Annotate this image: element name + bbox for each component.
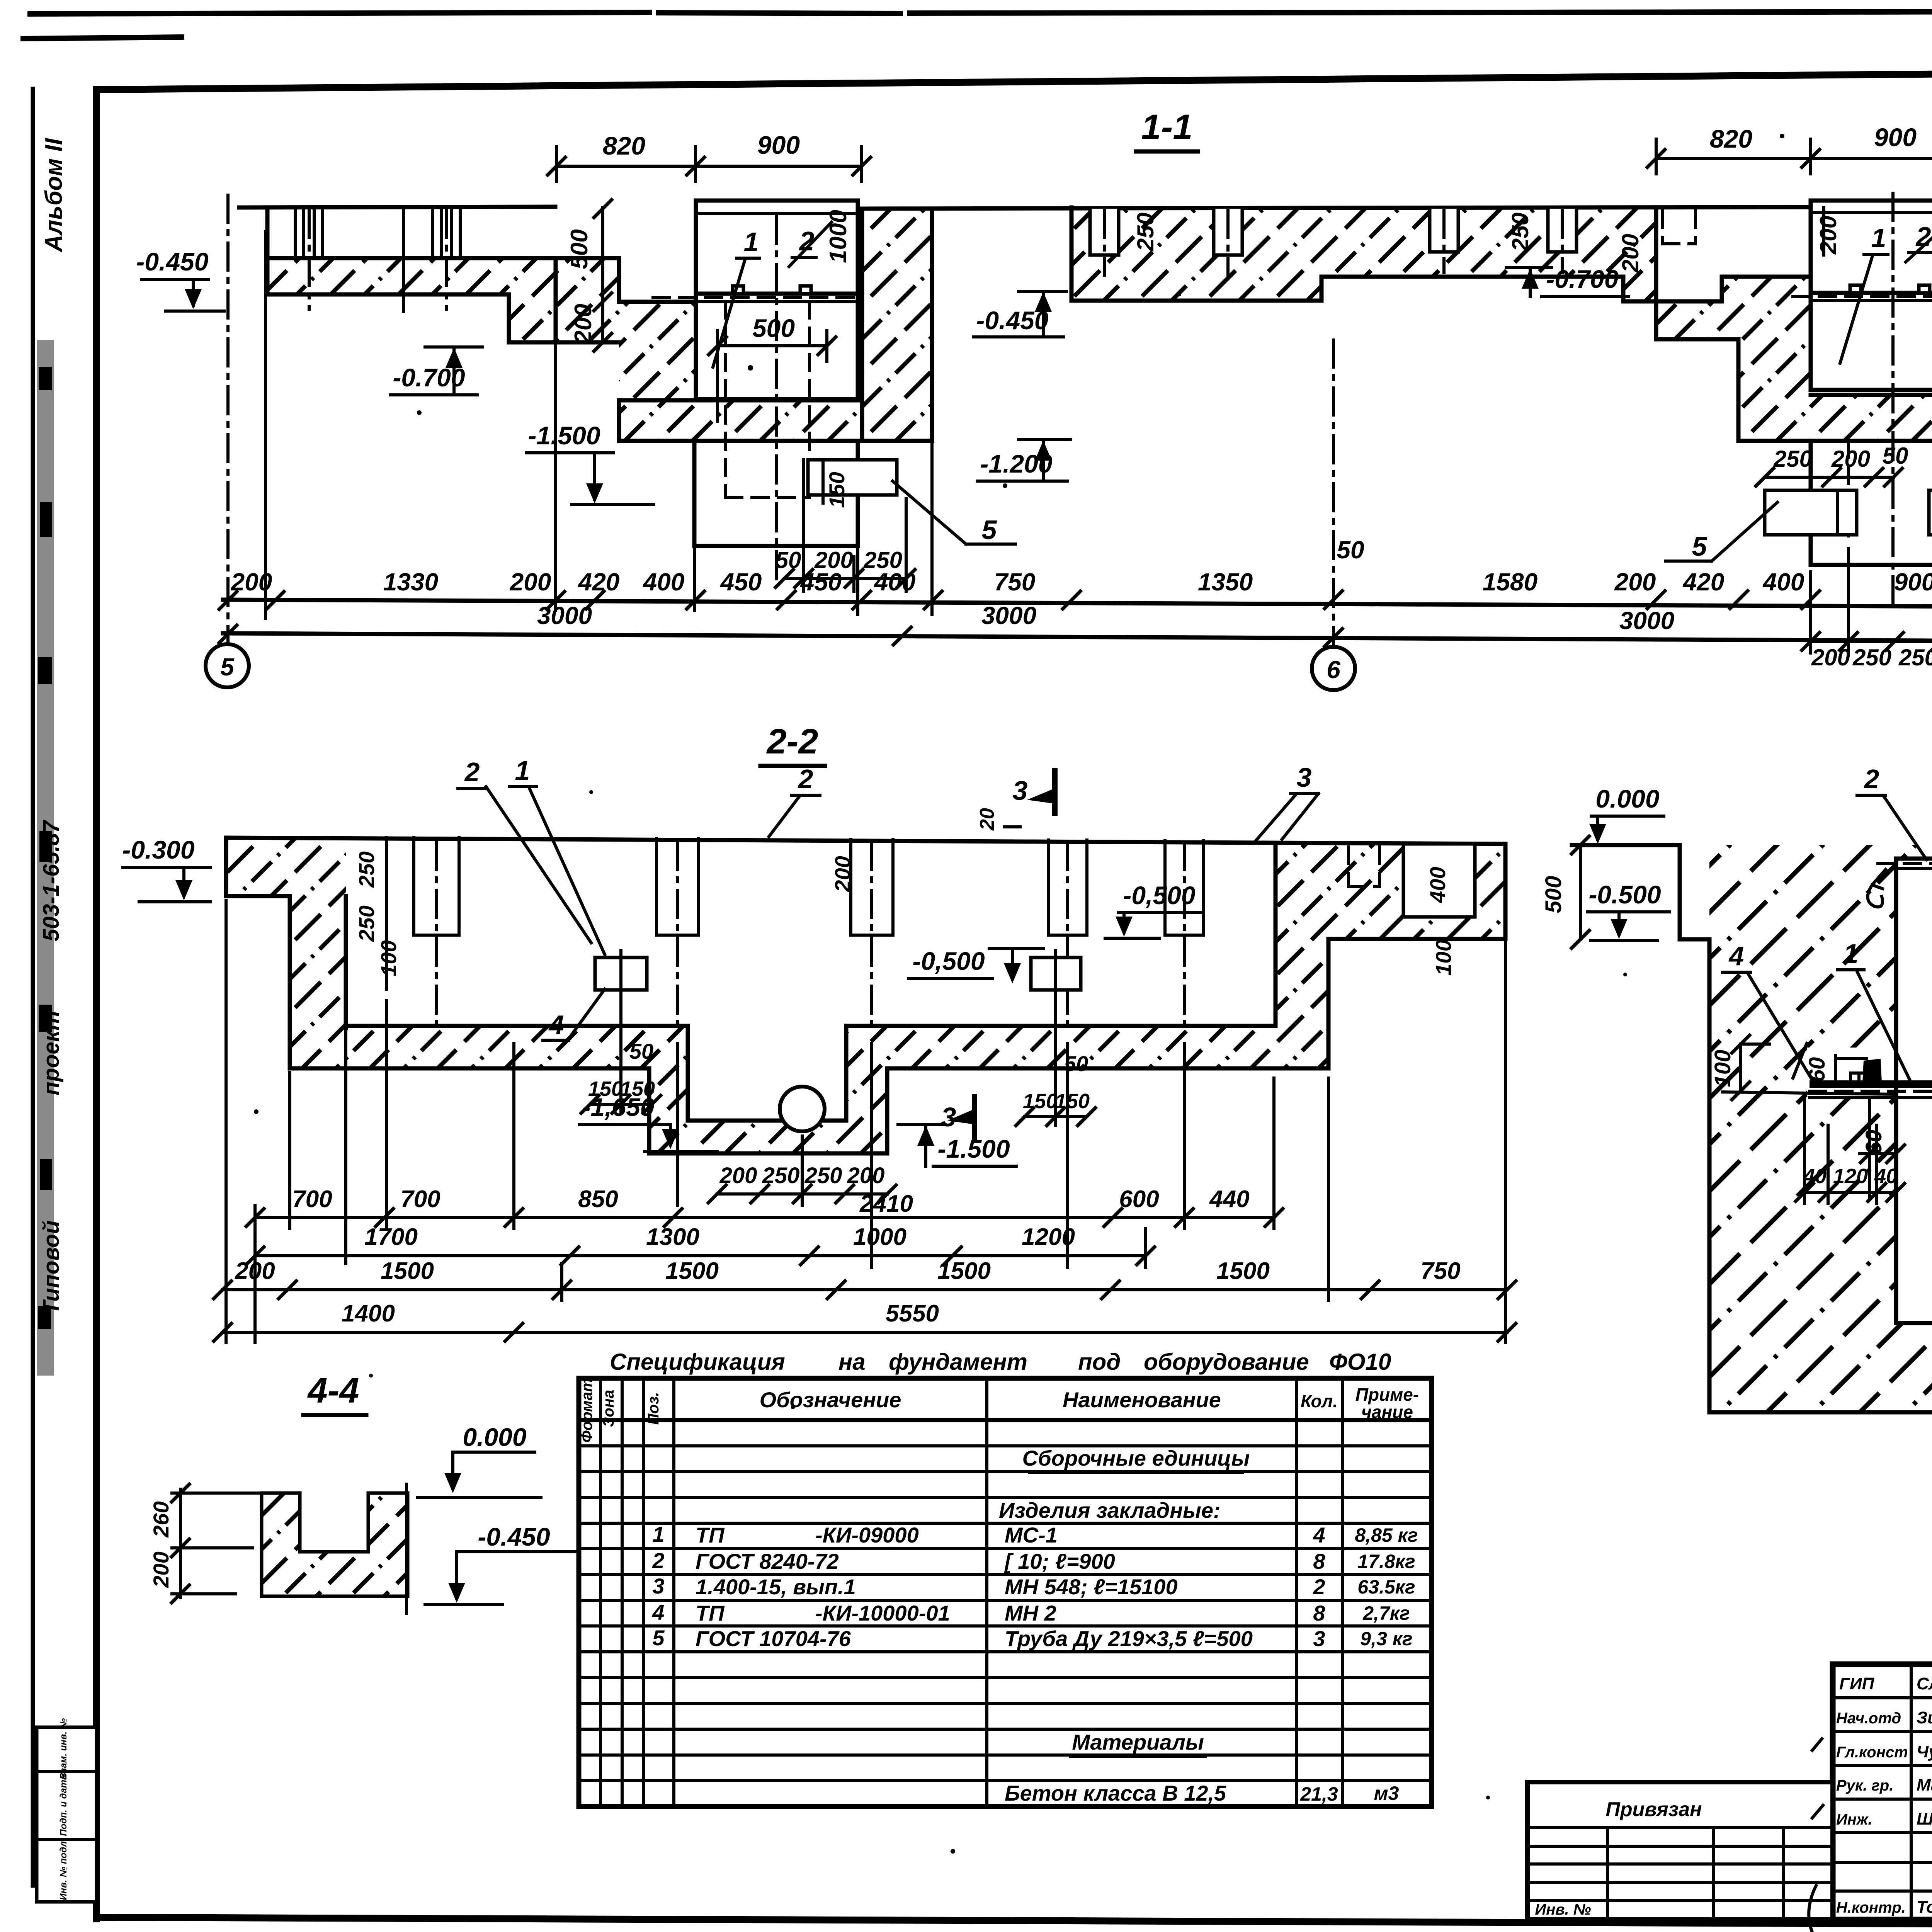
- left margin bottom stamp cells: [37, 1718, 97, 1902]
- svg-text:450: 450: [720, 568, 762, 596]
- level mark -0.450 left: [136, 247, 224, 311]
- svg-text:Спецификация: Спецификация: [610, 1349, 785, 1375]
- 4-4 right extension line: [405, 1484, 408, 1614]
- 4-4 left dim line 260/200: [149, 1483, 262, 1604]
- svg-text:200: 200: [719, 1163, 757, 1188]
- right unit top dim line 820/900: [1646, 123, 1932, 174]
- svg-text:3: 3: [1313, 1626, 1325, 1651]
- 3-3 dim 500 left: [1541, 835, 1590, 949]
- level mark -1.200 left unit: [978, 439, 1070, 481]
- svg-text:Нач.отд: Нач.отд: [1836, 1710, 1901, 1727]
- dim chain row 2: [218, 602, 1932, 652]
- 2-2 left rim hatch: [226, 838, 346, 896]
- svg-text:Сборочные единицы: Сборочные единицы: [1022, 1446, 1250, 1470]
- svg-text:40: 40: [1803, 1165, 1827, 1188]
- left margin smudge band: [37, 340, 54, 1376]
- svg-text:чание: чание: [1361, 1402, 1413, 1422]
- svg-text:3: 3: [1013, 776, 1028, 806]
- svg-text:оборудование: оборудование: [1144, 1349, 1309, 1375]
- svg-text:5: 5: [220, 653, 235, 681]
- 2-2 dim row D: [213, 1300, 1517, 1342]
- axis 6 line: [1332, 340, 1335, 646]
- svg-text:1300: 1300: [646, 1224, 699, 1250]
- 4-4 channel section: [262, 1493, 408, 1596]
- svg-text:20: 20: [976, 808, 998, 831]
- svg-text:1500: 1500: [937, 1258, 991, 1284]
- 3-3 clamp hook left: [1868, 869, 1886, 907]
- title block outer: [1833, 1664, 1932, 1920]
- svg-text:8,85 кг: 8,85 кг: [1355, 1524, 1418, 1546]
- svg-text:200: 200: [1617, 234, 1643, 273]
- signature row Нач.отд: [1836, 1708, 1932, 1727]
- svg-text:150: 150: [825, 472, 849, 508]
- svg-text:21,3: 21,3: [1300, 1783, 1338, 1805]
- svg-text:-КИ-10000-01: -КИ-10000-01: [815, 1601, 950, 1625]
- 2-2 pocket 1: [414, 838, 459, 1028]
- svg-text:ГОСТ 8240-72: ГОСТ 8240-72: [696, 1549, 839, 1573]
- 2-2 right rim hatch: [1328, 844, 1505, 976]
- 3-3 dim 60 upper: [1804, 1055, 1866, 1083]
- 2-2 pocket 5: [1165, 841, 1204, 1028]
- svg-text:900: 900: [757, 131, 800, 159]
- svg-text:150: 150: [1055, 1090, 1090, 1113]
- top-left short border line: [23, 37, 182, 39]
- svg-text:-0.450: -0.450: [478, 1522, 550, 1551]
- svg-text:Н.контр.: Н.контр.: [1836, 1899, 1906, 1916]
- svg-text:4: 4: [1728, 941, 1744, 971]
- svg-text:-1,650: -1,650: [582, 1093, 654, 1121]
- svg-text:4: 4: [548, 1010, 564, 1040]
- svg-text:ФО10: ФО10: [1329, 1349, 1391, 1375]
- svg-text:Рук. гр.: Рук. гр.: [1836, 1777, 1893, 1794]
- 4-4 level -0.450: [425, 1522, 576, 1605]
- left slab hatch: [267, 207, 556, 294]
- leader label 5 left unit: [893, 481, 1015, 545]
- svg-text:-1.500: -1.500: [528, 421, 600, 450]
- svg-text:-0.300: -0.300: [122, 835, 194, 864]
- svg-text:200: 200: [149, 1551, 173, 1588]
- svg-text:Взам. инв. №: Взам. инв. №: [58, 1718, 69, 1779]
- svg-text:1: 1: [1871, 223, 1886, 253]
- title block left box Привязан: [1527, 1782, 1833, 1920]
- svg-text:3000: 3000: [1619, 607, 1674, 634]
- specification header texts: [578, 1378, 1419, 1443]
- 2-2 embed box right: [1031, 951, 1081, 997]
- svg-text:8: 8: [1313, 1549, 1325, 1573]
- 2-2 leader 2 mid: [769, 764, 820, 837]
- specification row: сборочные единицы: [1022, 1446, 1250, 1472]
- left unit bottom sub dims 50/200/250: [774, 498, 916, 591]
- svg-text:250: 250: [1852, 645, 1891, 670]
- 3-3 level -0.500: [1587, 880, 1669, 940]
- svg-text:820: 820: [603, 131, 645, 160]
- section 4-4 title: [303, 1371, 366, 1415]
- svg-text:1: 1: [515, 755, 530, 786]
- svg-text:500: 500: [1541, 876, 1566, 913]
- level mark -0.450 left unit: [974, 292, 1066, 337]
- svg-text:250: 250: [1773, 446, 1812, 472]
- svg-text:0.000: 0.000: [1595, 784, 1659, 813]
- axis 5 line: [226, 195, 230, 643]
- middle slab pocket 4: [1548, 209, 1577, 272]
- handwritten flourish left of signature table: [1809, 1739, 1823, 1932]
- svg-text:50: 50: [776, 547, 801, 573]
- svg-text:503-1-65.87: 503-1-65.87: [39, 820, 64, 942]
- svg-text:250: 250: [1133, 213, 1158, 252]
- signature row Н.контр: [1836, 1898, 1932, 1917]
- svg-text:Инв. № подл.: Инв. № подл.: [58, 1838, 69, 1900]
- svg-text:200: 200: [231, 568, 272, 596]
- svg-text:1: 1: [1844, 939, 1859, 969]
- svg-text:500: 500: [752, 314, 795, 342]
- left pit pedestal: [694, 216, 858, 580]
- 2-2 dim row A: [245, 1186, 1284, 1228]
- svg-text:1700: 1700: [364, 1224, 418, 1250]
- svg-text:-0.450: -0.450: [136, 247, 208, 276]
- svg-text:МС-1: МС-1: [1005, 1523, 1058, 1547]
- ground line mid span: [862, 207, 1811, 209]
- svg-text:-0,500: -0,500: [912, 947, 985, 975]
- svg-text:250: 250: [804, 1163, 842, 1188]
- 2-2 right wall hatch: [1276, 844, 1328, 1068]
- 2-2 embed box left item 4: [595, 951, 647, 997]
- svg-text:Зона: Зона: [600, 1390, 617, 1427]
- 3-3 level 0.000: [1572, 784, 1664, 845]
- svg-text:120: 120: [1833, 1165, 1868, 1188]
- middle slab pocket 1: [1090, 209, 1119, 275]
- svg-text:60: 60: [1804, 1057, 1830, 1082]
- left unit inner dim 500: [707, 314, 837, 421]
- svg-text:МН 548; ℓ=15100: МН 548; ℓ=15100: [1005, 1575, 1178, 1599]
- right unit sub dims 250/200/50: [1755, 443, 1908, 487]
- middle slab hatch: [1071, 207, 1656, 301]
- svg-text:ТП: ТП: [696, 1601, 725, 1625]
- svg-text:260: 260: [149, 1501, 173, 1537]
- svg-text:1400: 1400: [342, 1300, 395, 1327]
- right unit dim 200: [1815, 207, 1841, 255]
- svg-text:200: 200: [1811, 645, 1850, 670]
- svg-text:200: 200: [1815, 216, 1841, 255]
- section 1-1 title: [1136, 107, 1198, 151]
- specification row: материалы: [1070, 1730, 1206, 1757]
- svg-text:50: 50: [1337, 536, 1364, 564]
- axis circle 6: [1312, 647, 1355, 690]
- left unit label 2: [789, 222, 832, 267]
- svg-text:Труба Ду 219×3,5 ℓ=500: Труба Ду 219×3,5 ℓ=500: [1005, 1626, 1253, 1651]
- svg-text:700: 700: [292, 1186, 332, 1213]
- svg-text:фундамент: фундамент: [889, 1349, 1027, 1375]
- svg-text:750: 750: [1420, 1258, 1460, 1284]
- svg-text:Чупахин: Чупахин: [1917, 1742, 1932, 1761]
- svg-text:-0,500: -0,500: [1123, 881, 1195, 910]
- svg-text:Кол.: Кол.: [1301, 1391, 1338, 1411]
- 2-2 dim 20 top: [976, 808, 1020, 831]
- specification item 2: [652, 1548, 1415, 1573]
- 3-3 outer pit outline: [1680, 845, 1932, 1412]
- specification table title: [610, 1349, 1391, 1378]
- svg-text:Гл.конст: Гл.конст: [1836, 1744, 1908, 1761]
- svg-text:ГОСТ 10704-76: ГОСТ 10704-76: [696, 1626, 851, 1651]
- svg-text:3000: 3000: [981, 602, 1036, 629]
- svg-text:Инв. №: Инв. №: [1535, 1901, 1591, 1918]
- signature row Инж: [1836, 1810, 1932, 1828]
- svg-text:1.400-15, вып.1: 1.400-15, вып.1: [696, 1575, 856, 1599]
- svg-text:600: 600: [1119, 1186, 1159, 1213]
- svg-text:50: 50: [629, 1039, 653, 1063]
- extension lines left unit: [265, 232, 932, 618]
- dim chain row 1: [218, 410, 1932, 626]
- svg-text:1330: 1330: [383, 568, 438, 596]
- right unit left hatch: [1656, 277, 1811, 441]
- ground line left span: [239, 207, 555, 207]
- 2-2 dim row B: [245, 1224, 1156, 1266]
- 2-2 level -1.500: [898, 1124, 1016, 1166]
- svg-text:200: 200: [1831, 446, 1870, 472]
- svg-text:1: 1: [744, 227, 759, 257]
- svg-text:ТП: ТП: [696, 1523, 725, 1547]
- specification item 4: [652, 1600, 1410, 1625]
- 2-2 extension lines: [226, 900, 1505, 1343]
- svg-text:150: 150: [1023, 1090, 1058, 1113]
- 2-2 level -0,500 mid: [909, 947, 1043, 983]
- 3-3 left bracket cutout: [1807, 1048, 1896, 1096]
- 2-2 floor slab and sump hatch: [290, 844, 1328, 1153]
- svg-text:3: 3: [941, 1102, 956, 1132]
- svg-text:Подп. и дата: Подп. и дата: [58, 1775, 69, 1836]
- svg-text:3: 3: [1297, 762, 1312, 793]
- svg-text:200: 200: [1614, 568, 1656, 596]
- 2-2 pocket 2: [656, 838, 699, 1028]
- svg-text:Бетон класса В 12,5: Бетон класса В 12,5: [1005, 1781, 1226, 1805]
- svg-text:250: 250: [354, 905, 379, 942]
- svg-text:3: 3: [652, 1574, 664, 1598]
- right unit pipe right item 5: [1929, 490, 1932, 535]
- svg-text:Альбом II: Альбом II: [41, 138, 67, 253]
- svg-text:Сланский: Сланский: [1917, 1674, 1932, 1693]
- svg-text:200: 200: [847, 1163, 885, 1188]
- svg-text:250: 250: [354, 851, 379, 888]
- svg-text:Обозначение: Обозначение: [760, 1388, 901, 1412]
- svg-text:Маралев: Маралев: [1917, 1776, 1932, 1794]
- svg-text:420: 420: [578, 568, 620, 596]
- svg-text:6: 6: [1327, 656, 1340, 684]
- right unit label 1: [1840, 223, 1888, 363]
- 2-2 level -1,650: [580, 1093, 717, 1151]
- svg-text:Материалы: Материалы: [1072, 1730, 1204, 1754]
- middle slab pocket 2: [1214, 209, 1242, 275]
- 2-2 level -0.300: [122, 835, 211, 902]
- svg-text:Формат: Формат: [578, 1378, 595, 1443]
- svg-text:2: 2: [1313, 1575, 1325, 1599]
- 2-2 ground line: [226, 838, 1505, 844]
- level mark -0.700 left: [390, 347, 482, 395]
- svg-text:1000: 1000: [853, 1224, 906, 1250]
- svg-text:50: 50: [1883, 443, 1908, 469]
- left pit right wall hatch: [862, 209, 932, 441]
- svg-text:17.8кг: 17.8кг: [1357, 1551, 1415, 1572]
- svg-text:450: 450: [800, 568, 842, 596]
- right unit pipe left item 5: [1765, 490, 1857, 535]
- leader label 5 right unit left pipe: [1665, 502, 1777, 561]
- 3-3 leader 2: [1857, 764, 1927, 860]
- svg-text:5: 5: [1692, 531, 1708, 561]
- svg-text:[ 10; ℓ=900: [ 10; ℓ=900: [1004, 1549, 1115, 1573]
- 3-3 leader 4: [1723, 941, 1812, 1080]
- specification item 1: [652, 1522, 1418, 1547]
- svg-text:9,3 кг: 9,3 кг: [1360, 1628, 1412, 1650]
- right unit dashed pocket left: [1663, 211, 1696, 244]
- specification item 5: [652, 1626, 1412, 1651]
- left unit label 1: [713, 227, 760, 367]
- svg-text:1500: 1500: [381, 1258, 434, 1284]
- svg-text:400: 400: [1425, 867, 1450, 903]
- 3-3 equipment box cutout: [1896, 859, 1932, 1323]
- svg-text:1-1: 1-1: [1141, 107, 1193, 147]
- svg-text:-0.700: -0.700: [1546, 265, 1618, 293]
- svg-text:Шаталина: Шаталина: [1917, 1810, 1932, 1828]
- photocopy speckles: [254, 134, 1932, 1854]
- svg-text:-0.500: -0.500: [1588, 880, 1661, 909]
- left slab centre line: [402, 207, 405, 311]
- svg-text:1500: 1500: [1216, 1258, 1270, 1284]
- 3-3 dim 100: [1710, 1034, 1770, 1101]
- svg-text:Изделия закладные:: Изделия закладные:: [999, 1498, 1221, 1522]
- signature row ГИП: [1839, 1674, 1932, 1693]
- svg-text:3000: 3000: [537, 602, 592, 629]
- 2-2 label 4: [543, 989, 605, 1040]
- 2-2 level -0,500 right: [1105, 881, 1202, 938]
- specification item 3: [652, 1574, 1415, 1599]
- svg-text:4: 4: [1313, 1523, 1325, 1547]
- 3-3 left anchor detail: [1723, 1043, 1896, 1094]
- svg-text:Типовой: Типовой: [39, 1220, 64, 1315]
- svg-text:2: 2: [464, 757, 480, 787]
- 2-2 leader 1: [509, 755, 605, 954]
- 3-3 leader 1: [1838, 939, 1911, 1082]
- specification row: бетон: [1005, 1781, 1399, 1805]
- svg-text:440: 440: [1209, 1186, 1249, 1213]
- svg-text:100: 100: [1710, 1050, 1735, 1087]
- svg-text:420: 420: [1682, 568, 1725, 596]
- svg-text:750: 750: [994, 568, 1036, 596]
- svg-text:м3: м3: [1374, 1782, 1399, 1804]
- svg-text:1: 1: [652, 1522, 664, 1546]
- svg-text:Инж.: Инж.: [1836, 1811, 1872, 1828]
- svg-text:5550: 5550: [886, 1300, 939, 1327]
- svg-text:2,7кг: 2,7кг: [1362, 1602, 1410, 1624]
- svg-text:на: на: [838, 1349, 866, 1375]
- left pit bottom slab hatch: [619, 400, 862, 441]
- svg-text:Поз.: Поз.: [645, 1392, 662, 1425]
- 2-2 leader 2 left: [458, 757, 591, 943]
- svg-text:ГИП: ГИП: [1839, 1674, 1875, 1693]
- svg-text:2410: 2410: [859, 1190, 913, 1217]
- svg-text:63.5кг: 63.5кг: [1357, 1576, 1415, 1598]
- 3-3 soil block hatch: [1709, 845, 1932, 1412]
- svg-text:250: 250: [1898, 645, 1932, 670]
- svg-text:1500: 1500: [665, 1258, 719, 1284]
- 2-2 dim row C: [213, 1258, 1517, 1300]
- 2-2 leader 3 right: [1255, 762, 1318, 842]
- svg-text:5: 5: [652, 1626, 665, 1650]
- svg-text:400: 400: [1762, 568, 1804, 596]
- 2-2 section mark 3 top: [1013, 771, 1055, 813]
- svg-text:250: 250: [762, 1163, 800, 1188]
- svg-text:400: 400: [643, 568, 685, 596]
- 3-3 ground line left: [1572, 843, 1680, 847]
- svg-text:МН 2: МН 2: [1005, 1601, 1056, 1625]
- svg-text:820: 820: [1710, 124, 1752, 153]
- 2-2 sub chain 200/250/250/200: [707, 1163, 897, 1204]
- 3-3 dims 40/120/40 left: [1794, 1097, 1906, 1204]
- svg-text:850: 850: [578, 1186, 618, 1213]
- left pit left wall hatch: [556, 258, 696, 441]
- svg-text:под: под: [1078, 1349, 1121, 1375]
- svg-text:100: 100: [1431, 939, 1456, 975]
- 2-2 section mark 3 bottom: [941, 1097, 975, 1138]
- left unit equipment box: [653, 201, 858, 399]
- svg-text:Привязан: Привязан: [1605, 1798, 1702, 1821]
- left slab pocket 2: [433, 207, 460, 309]
- specification table grid: [579, 1378, 1432, 1806]
- left margin outer vertical: [31, 89, 35, 1886]
- left slab pocket 1: [295, 207, 323, 309]
- svg-text:700: 700: [400, 1186, 440, 1213]
- 2-2 left dims 250/250/100: [354, 838, 401, 989]
- top outer border line: [30, 11, 1932, 14]
- signature row Гл.конст: [1836, 1742, 1932, 1761]
- svg-text:4: 4: [652, 1600, 664, 1624]
- right unit left white zone: [1656, 207, 1722, 339]
- svg-text:100: 100: [376, 940, 401, 976]
- 4-4 level 0.000: [417, 1423, 541, 1498]
- svg-text:400: 400: [874, 568, 916, 596]
- 2-2 embed right dims 50 and 150/150: [1015, 997, 1097, 1127]
- svg-text:200: 200: [830, 856, 855, 892]
- 3-3 equipment box outline: [1878, 859, 1932, 1323]
- left step block: [509, 258, 556, 342]
- title block signature grid: [1833, 1664, 1932, 1920]
- 2-2 embed left dims 50 and 150/150: [580, 997, 662, 1114]
- svg-text:0.000: 0.000: [463, 1423, 526, 1451]
- svg-text:8: 8: [1313, 1601, 1325, 1625]
- left unit dims 500/200: [566, 199, 613, 352]
- svg-text:2: 2: [652, 1548, 664, 1573]
- svg-text:2: 2: [1864, 764, 1879, 794]
- svg-text:Зильвертов: Зильвертов: [1917, 1708, 1932, 1727]
- middle slab pocket 3: [1430, 209, 1458, 272]
- svg-text:1350: 1350: [1198, 568, 1253, 596]
- right unit pedestal: [1811, 193, 1932, 603]
- left pit pipe item 5: [804, 460, 897, 508]
- left unit top dim line 820/900: [546, 131, 872, 182]
- svg-text:проект: проект: [39, 1010, 64, 1095]
- 3-3 bearing plate item 1: [1810, 1084, 1932, 1097]
- svg-text:Толмачева: Толмачева: [1917, 1898, 1932, 1917]
- svg-text:2-2: 2-2: [766, 722, 818, 761]
- svg-text:-КИ-09000: -КИ-09000: [815, 1523, 919, 1547]
- svg-text:Наименование: Наименование: [1063, 1388, 1221, 1412]
- right unit label 2: [1906, 207, 1932, 262]
- right unit equipment box: [1793, 201, 1932, 390]
- svg-text:5: 5: [982, 515, 997, 545]
- right unit bottom slab hatch: [1811, 395, 1932, 441]
- level mark -0.700 right: [1506, 265, 1629, 297]
- level mark -1.500 left unit: [526, 421, 654, 505]
- axis circle 5: [206, 644, 249, 687]
- svg-text:900: 900: [1894, 568, 1932, 596]
- 2-2 pocket 3: [851, 839, 893, 1028]
